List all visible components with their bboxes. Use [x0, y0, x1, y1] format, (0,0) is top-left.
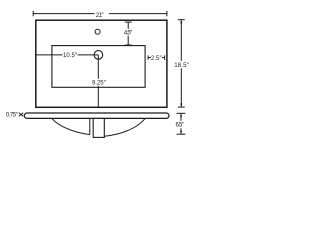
dimension 9.25" vertical [97, 55, 99, 107]
svg-text:18.5″: 18.5″ [174, 62, 189, 69]
dimension 4.5" vertical [125, 22, 132, 45]
svg-text:10.5″: 10.5″ [63, 53, 78, 59]
bowl left vertical [89, 118, 91, 134]
bowl left curve [52, 118, 90, 134]
dimension 2.5" horizontal [148, 55, 165, 59]
faucet hole [95, 29, 100, 34]
dimension 21" top [33, 11, 167, 16]
dimension 18.5" right side [178, 20, 185, 107]
bowl right curve [104, 118, 145, 136]
dimension 10.5" horizontal [36, 54, 98, 56]
arrows bowtie 0.75 [19, 113, 23, 117]
svg-text:2.5″: 2.5″ [151, 56, 163, 62]
svg-text:6.5″: 6.5″ [176, 123, 185, 129]
drain hole [94, 51, 103, 60]
side view slab [24, 113, 169, 118]
svg-text:0.75″: 0.75″ [6, 113, 19, 119]
svg-text:9.25″: 9.25″ [92, 81, 107, 87]
dimension 6.5" right side [177, 113, 186, 134]
drain block [93, 118, 104, 137]
svg-text:21″: 21″ [96, 12, 105, 19]
svg-text:4.5″: 4.5″ [124, 31, 133, 37]
sink basin inner rectangle [52, 46, 145, 88]
countertop outer rectangle (top view) [36, 20, 167, 107]
